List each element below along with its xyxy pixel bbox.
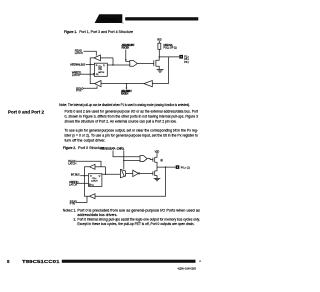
transistor Q1 channel	[155, 60, 157, 66]
label P0.x (1)	[181, 166, 190, 169]
buffer alternate input U3	[144, 81, 153, 87]
resistor R1 internal pull-up	[158, 43, 161, 49]
svg-text:PIN: PIN	[76, 90, 81, 93]
svg-text:8: 8	[7, 259, 10, 264]
arrowhead alt output	[125, 59, 127, 61]
arrowhead alt input	[126, 88, 128, 90]
ground	[154, 178, 161, 180]
pin pad P0.x	[176, 165, 180, 169]
svg-text:LATCH: LATCH	[98, 71, 105, 74]
junction riser/Q	[112, 64, 113, 65]
junction riser/Q	[105, 174, 106, 175]
junction pin line	[165, 166, 166, 167]
buffer read latch U1	[94, 55, 100, 61]
wire control drop to mux select	[123, 150, 125, 169]
transistor Q2 drain	[155, 156, 157, 157]
transistor Q2 pull-up gate bar	[152, 158, 154, 162]
svg-text:P0.x (1): P0.x (1)	[181, 166, 190, 169]
internal bus vertical	[90, 58, 94, 84]
CL bubble	[93, 73, 95, 75]
svg-text:Q: Q	[99, 176, 101, 178]
svg-text:ATMEL: ATMEL	[100, 17, 121, 23]
riser Q to read-latch buffer	[112, 58, 114, 65]
junction bus/D	[90, 64, 91, 65]
label ADDRESS/DATA	[100, 148, 115, 151]
junction control/AND	[123, 160, 124, 161]
junction pullup/drain/pin	[159, 56, 160, 57]
junction bus/D	[84, 175, 85, 176]
svg-text:P4.x: P4.x	[184, 61, 189, 64]
wire write to latch	[76, 182, 89, 184]
svg-text:LATCH: LATCH	[91, 180, 98, 183]
svg-text:Port 0 internal strong pull-up: Port 0 internal strong pull-ups assist t…	[77, 217, 200, 221]
wire buffer input	[95, 166, 106, 168]
wire pin to bottom rail	[168, 57, 170, 84]
buffer read latch U6	[90, 164, 96, 169]
svg-text:Figure 2.Port 0 Structure: Figure 2.Port 0 Structure	[63, 146, 104, 150]
wire VDD stem	[158, 41, 160, 43]
NAND gate U2	[130, 61, 138, 67]
mux U7	[120, 169, 125, 177]
AND gate U5	[140, 156, 147, 162]
inverter bubble	[138, 173, 139, 174]
transistor Q1 gate bar	[153, 60, 155, 66]
svg-text:Ports 0 and 2 are used for gen: Ports 0 and 2 are used for general-purpo…	[65, 110, 199, 114]
label VDD	[155, 150, 160, 153]
svg-text:4129A–CAN–02/00: 4129A–CAN–02/00	[178, 267, 197, 271]
label READ LATCH	[68, 160, 76, 166]
wire control to AND input	[124, 160, 140, 162]
svg-text:Notes:: Notes:	[63, 208, 73, 212]
wire Q to gate	[107, 64, 130, 66]
buffer read pin U4	[95, 81, 102, 87]
svg-text:PIN: PIN	[70, 203, 75, 206]
svg-text:LATCH: LATCH	[72, 74, 80, 77]
label P1.x P3.x P4.x	[184, 55, 189, 64]
wire address/data drop to AND	[113, 150, 140, 156]
Atmel logo	[95, 14, 124, 23]
svg-text:The internal pull-up can be di: The internal pull-up can be disabled whe…	[68, 103, 190, 107]
transistor Q1 source	[156, 66, 159, 69]
svg-text:ADDRESS/DATA: ADDRESS/DATA	[100, 148, 115, 151]
transistor Q3 channel	[154, 171, 156, 176]
transistor Q3 source	[155, 176, 157, 179]
buffer read pin U9	[90, 194, 96, 199]
latch P1.x D-latch	[94, 63, 107, 76]
svg-text:Q: Q	[103, 65, 105, 67]
svg-text:To use a pin for general-purpo: To use a pin for general-purpose output,…	[65, 128, 199, 132]
wire resistor to pin line	[158, 49, 160, 57]
footer rule	[62, 260, 196, 263]
label READ PIN	[70, 200, 77, 205]
transistor Q3 drain	[155, 167, 157, 171]
wire alternate input tap	[125, 84, 127, 88]
svg-text:INT. BUS: INT. BUS	[71, 174, 80, 177]
label INT. BUS	[71, 174, 80, 177]
svg-text:LATCH: LATCH	[69, 184, 77, 187]
wire Q to mux	[102, 173, 121, 175]
svg-text:address/data bus drivers.: address/data bus drivers.	[77, 213, 117, 217]
transistor Q1 drain	[156, 57, 159, 60]
pin line wire	[157, 166, 176, 168]
junction rail tap	[126, 83, 127, 84]
pin pad P1.x	[179, 55, 183, 59]
label WRITE TO LATCH	[72, 71, 81, 77]
svg-text:FUNCTION: FUNCTION	[122, 47, 130, 50]
svg-text:Figure 1.Port 1, Port 3 and Po: Figure 1.Port 1, Port 3 and Port 4 Struc…	[64, 30, 133, 34]
svg-text:ister (x = 0 or 2). To use a p: ister (x = 0 or 2). To use a pin for gen…	[65, 133, 199, 137]
wire gate to PMOS gate	[147, 159, 153, 160]
wire alternate output arrow	[126, 50, 130, 62]
svg-text:Except in these bus cycles, th: Except in these bus cycles, the pull-up …	[77, 222, 194, 226]
svg-text:T89C51CC01: T89C51CC01	[22, 259, 60, 264]
wire int bus to D input	[80, 175, 88, 177]
riser to Q wire	[105, 167, 107, 174]
label ALTERNATE INPUT FUNCTION	[121, 90, 132, 96]
wire read pin enable	[83, 86, 97, 88]
svg-text:2.: 2.	[74, 217, 77, 221]
inverter U8	[133, 170, 139, 176]
body paragraph 1	[65, 110, 199, 124]
bottom rail wire	[101, 83, 144, 85]
wire VDD stem	[156, 153, 158, 156]
wire inverter to NMOS gate	[140, 172, 153, 174]
pin line wire	[159, 56, 179, 58]
svg-text:Note:: Note:	[59, 103, 67, 107]
wire buffer input to riser	[100, 57, 113, 59]
notes under figure 2	[63, 208, 201, 226]
label VDD	[157, 39, 162, 42]
svg-text:LATCH: LATCH	[68, 163, 76, 166]
latch P0.x D-latch	[89, 174, 102, 187]
svg-text:INTERNAL BUS: INTERNAL BUS	[70, 63, 85, 66]
transistor Q2 channel	[154, 157, 156, 162]
internal bus vertical	[85, 167, 90, 196]
label WRITE TO LATCH	[69, 181, 78, 187]
label READ PIN	[76, 87, 83, 92]
footer edge tick	[199, 260, 201, 262]
wire read pin enable	[76, 196, 87, 202]
label INTERNAL PULL-UP (1)	[164, 44, 177, 50]
label READ LATCH	[75, 50, 83, 56]
svg-text:FUNCTION: FUNCTION	[121, 93, 129, 96]
label ALTERNATE OUTPUT FUNCTION	[122, 44, 136, 50]
label INTERNAL BUS	[70, 63, 85, 66]
label CONTROL	[117, 148, 125, 151]
svg-text:P4.x: P4.x	[99, 69, 102, 71]
ground	[157, 70, 164, 73]
wire mux to inverter	[126, 172, 133, 174]
svg-text:shows the structure of Port 2.: shows the structure of Port 2. An extern…	[65, 120, 177, 124]
svg-text:PULL-UP (1): PULL-UP (1)	[164, 47, 177, 50]
svg-text:turn off the output driver.: turn off the output driver.	[65, 138, 106, 142]
label (2)	[161, 159, 163, 162]
svg-text:1.: 1.	[74, 208, 77, 212]
svg-text:(2): (2)	[161, 159, 163, 162]
wire read latch enable	[76, 161, 101, 167]
wire read latch enable	[84, 51, 97, 55]
CL bubble	[89, 184, 91, 186]
wire write to latch	[80, 73, 93, 75]
wire internal bus to D input	[86, 64, 95, 66]
svg-text:LATCH: LATCH	[75, 52, 83, 55]
body paragraph 2	[65, 128, 199, 142]
svg-text:0, shown in Figure 3, differs: 0, shown in Figure 3, differs from the o…	[65, 115, 199, 119]
top rule	[125, 17, 198, 20]
wire pin to bottom rail	[95, 167, 166, 196]
svg-text:Port 0 is precluded from use a: Port 0 is precluded from use as general-…	[77, 208, 200, 212]
transistor Q3 gate bar	[152, 171, 154, 175]
transistor Q2 source	[155, 162, 157, 167]
wire gate to transistor gate	[137, 62, 154, 64]
svg-text:Port 0 and Port 2: Port 0 and Port 2	[8, 109, 45, 114]
svg-text:CONTROL: CONTROL	[117, 148, 125, 151]
